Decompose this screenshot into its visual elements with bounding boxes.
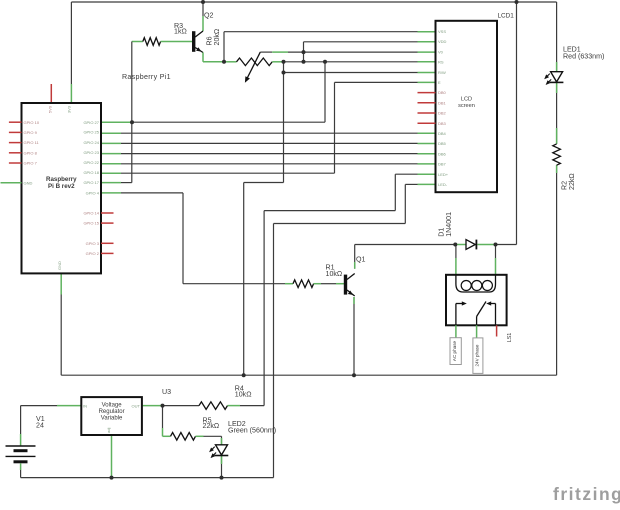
svg-text:LS1: LS1 <box>507 333 513 343</box>
svg-text:Raspberry: Raspberry <box>46 176 77 183</box>
svg-text:GPIO 23: GPIO 23 <box>83 150 99 155</box>
svg-text:V0: V0 <box>438 49 444 54</box>
svg-text:Variable: Variable <box>101 416 123 422</box>
svg-text:R/W: R/W <box>438 70 446 75</box>
svg-text:GPIO 27: GPIO 27 <box>83 120 99 125</box>
svg-text:GPIO 2: GPIO 2 <box>86 251 100 256</box>
svg-text:10kΩ: 10kΩ <box>326 270 343 278</box>
svg-text:Q2: Q2 <box>204 12 214 20</box>
svg-text:GPIO 8: GPIO 8 <box>24 150 38 155</box>
svg-text:GPIO 9: GPIO 9 <box>24 130 38 135</box>
svg-text:22kΩ: 22kΩ <box>203 422 220 430</box>
svg-text:GPIO 15: GPIO 15 <box>83 221 99 226</box>
svg-text:3V3: 3V3 <box>67 105 72 113</box>
svg-text:GPIO 14: GPIO 14 <box>83 211 99 216</box>
svg-text:Voltage: Voltage <box>102 403 123 409</box>
svg-text:VSS: VSS <box>438 29 446 34</box>
svg-text:RS: RS <box>438 60 444 65</box>
svg-text:E: E <box>438 80 441 85</box>
svg-text:GPIO 25: GPIO 25 <box>83 130 99 135</box>
svg-text:DB2: DB2 <box>438 111 447 116</box>
svg-text:1N4001: 1N4001 <box>445 212 453 237</box>
svg-text:Pi B rev2: Pi B rev2 <box>48 183 75 190</box>
svg-text:GPIO 10: GPIO 10 <box>24 120 40 125</box>
svg-text:10kΩ: 10kΩ <box>235 391 252 399</box>
svg-text:DB7: DB7 <box>438 162 447 167</box>
svg-text:IN: IN <box>83 403 87 408</box>
svg-text:adj: adj <box>106 428 111 433</box>
svg-text:GPIO 22: GPIO 22 <box>83 160 99 165</box>
svg-text:GPIO 17: GPIO 17 <box>83 180 99 185</box>
svg-text:LED-: LED- <box>438 182 448 187</box>
svg-text:AC phase: AC phase <box>452 340 457 361</box>
svg-text:GPIO 11: GPIO 11 <box>24 140 40 145</box>
svg-text:Red (633nm): Red (633nm) <box>563 53 604 61</box>
svg-text:screen: screen <box>458 103 475 109</box>
svg-text:20kΩ: 20kΩ <box>213 29 221 46</box>
svg-text:Raspberry Pi1: Raspberry Pi1 <box>122 73 171 81</box>
svg-text:DB6: DB6 <box>438 151 447 156</box>
svg-text:DB3: DB3 <box>438 121 447 126</box>
svg-text:GPIO 24: GPIO 24 <box>83 140 99 145</box>
svg-text:LCD: LCD <box>461 97 472 103</box>
svg-text:Q1: Q1 <box>356 256 366 264</box>
svg-text:LED+: LED+ <box>438 172 449 177</box>
svg-text:1kΩ: 1kΩ <box>174 28 187 36</box>
svg-text:GPIO 7: GPIO 7 <box>24 161 38 166</box>
svg-text:VDD: VDD <box>438 39 447 44</box>
svg-text:Regulator: Regulator <box>99 409 125 415</box>
svg-text:5V0: 5V0 <box>47 105 52 113</box>
svg-text:DB1: DB1 <box>438 100 447 105</box>
svg-text:Green (560nm): Green (560nm) <box>228 426 276 434</box>
svg-text:24V phase: 24V phase <box>474 344 479 366</box>
svg-text:LCD1: LCD1 <box>498 13 515 20</box>
svg-text:GPIO 4: GPIO 4 <box>86 191 100 196</box>
svg-text:OUT: OUT <box>132 403 141 408</box>
svg-text:GND: GND <box>24 180 33 185</box>
svg-text:GND: GND <box>57 261 62 270</box>
svg-text:DB0: DB0 <box>438 90 447 95</box>
svg-text:DB4: DB4 <box>438 131 447 136</box>
svg-text:DB5: DB5 <box>438 141 447 146</box>
svg-text:GPIO 3: GPIO 3 <box>86 241 100 246</box>
svg-text:24: 24 <box>36 422 44 430</box>
svg-text:fritzing: fritzing <box>553 484 620 504</box>
svg-text:U3: U3 <box>162 388 171 396</box>
svg-text:22kΩ: 22kΩ <box>568 173 576 190</box>
svg-text:GPIO 18: GPIO 18 <box>83 170 99 175</box>
